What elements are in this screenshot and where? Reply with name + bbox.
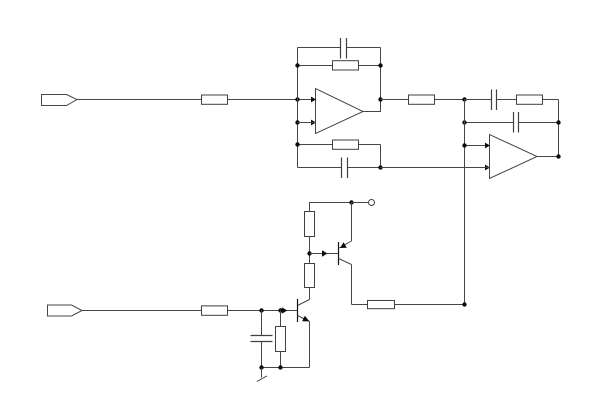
op-amp U1 xyxy=(316,89,364,134)
Q2 emitter vertical wire xyxy=(309,322,311,368)
junction R7 right xyxy=(462,302,466,306)
resistor R9 xyxy=(202,306,228,315)
resistor R5 xyxy=(517,95,543,104)
junction R3 left xyxy=(295,142,299,146)
Q1 emitter diagonal xyxy=(339,241,351,248)
node B vertical wire xyxy=(464,100,466,305)
op-amp U2 xyxy=(490,135,538,179)
resistor R8 xyxy=(305,264,315,288)
capacitor C1 left plate xyxy=(340,38,342,59)
wire output to R4 xyxy=(381,99,409,101)
wire node B to C3 xyxy=(465,99,492,101)
capacitor C4 left plate xyxy=(513,112,515,133)
junction U2 upper input xyxy=(462,143,466,147)
Q1 emitter arrow xyxy=(340,242,347,248)
capacitor C4 right plate xyxy=(518,112,520,133)
capacitor C5 bottom lead xyxy=(261,342,263,368)
wire node to U1 lower input xyxy=(298,122,316,124)
junction U2 output xyxy=(556,154,560,158)
wire node B to U2 input xyxy=(465,145,490,147)
junction emitter node xyxy=(349,200,353,204)
wire node C to Q1 base xyxy=(310,253,339,255)
wire U2 output xyxy=(537,156,559,158)
ground slash xyxy=(257,376,267,382)
wire to terminal xyxy=(352,202,369,204)
junction U1 lower input xyxy=(295,120,299,124)
wire P2 to R9 xyxy=(82,310,202,312)
wire R6 to R8 xyxy=(309,237,311,264)
top loop wire right of C1 xyxy=(347,47,381,49)
Q2 collector diagonal xyxy=(298,300,310,306)
Q1 collector vertical wire xyxy=(351,265,353,305)
resistor R6 xyxy=(305,212,315,237)
U2 input arrow top xyxy=(485,143,490,149)
junction R2 right xyxy=(378,63,382,67)
right feedback vertical wire xyxy=(558,100,560,157)
wire C3 to R5 xyxy=(497,99,517,101)
Q2 base arrow xyxy=(282,307,288,314)
resistor R10 top lead xyxy=(280,311,282,327)
wire R3 right xyxy=(359,144,381,146)
ground lead xyxy=(261,368,263,378)
Q2 emitter diagonal xyxy=(298,316,310,322)
capacitor C2 left plate xyxy=(341,158,343,179)
bottom loop wire right of C2 xyxy=(348,167,381,169)
wire to R2 left xyxy=(298,65,333,67)
wire R6 top to emitter node xyxy=(310,203,352,212)
wire R9 to Q2 base xyxy=(228,310,298,312)
wire bottom loop to U2 lower input xyxy=(381,167,490,169)
Q2 emitter arrow xyxy=(302,316,309,322)
transistor Q2 base bar xyxy=(297,299,299,322)
left feedback vertical wire xyxy=(297,48,299,168)
junction C4 left xyxy=(462,120,466,124)
resistor R1 xyxy=(202,95,228,104)
junction U1 output node xyxy=(378,97,382,101)
resistor R10 bottom lead xyxy=(280,352,282,368)
Q1 base arrow xyxy=(322,250,327,256)
junction bottom loop xyxy=(378,165,382,169)
wire P1 to R1 xyxy=(77,99,202,101)
wire to R3 left xyxy=(298,144,333,146)
wire R8 to Q2 collector xyxy=(309,288,311,300)
capacitor C5 top lead xyxy=(261,311,263,336)
Q1 collector diagonal xyxy=(339,259,352,265)
wire C4 to right vertical xyxy=(519,122,559,124)
top loop right vertical wire xyxy=(380,48,382,100)
terminal circle xyxy=(369,200,375,206)
bottom loop wire left of C2 xyxy=(298,167,342,169)
capacitor C1 right plate xyxy=(346,38,348,59)
junction C4 right xyxy=(556,120,560,124)
junction rail right xyxy=(278,365,282,369)
resistor R4 xyxy=(409,95,435,104)
U2 input arrow bottom xyxy=(485,165,490,171)
U1 input arrow top xyxy=(311,97,316,103)
capacitor C2 right plate xyxy=(347,158,349,179)
wire Q1 collector to R7 xyxy=(352,304,368,306)
resistor R10 xyxy=(276,327,286,352)
wire R5 to right vertical xyxy=(543,99,559,101)
bottom loop right vertical wire xyxy=(380,145,382,168)
junction node B xyxy=(462,97,466,101)
input port P2 xyxy=(48,305,83,316)
junction R10 top xyxy=(278,308,282,312)
wire R2 right xyxy=(359,65,381,67)
junction rail left xyxy=(259,365,263,369)
wire U1 output xyxy=(363,100,381,112)
capacitor C3 right plate xyxy=(496,90,498,111)
transistor Q1 base bar xyxy=(338,242,340,265)
junction R2 left xyxy=(295,63,299,67)
U1 input arrow bottom xyxy=(311,120,316,126)
top loop wire left of C1 xyxy=(298,47,341,49)
capacitor C3 left plate xyxy=(491,90,493,111)
junction C5 top xyxy=(259,308,263,312)
capacitor C5 top plate xyxy=(251,335,273,337)
resistor R2 xyxy=(333,61,359,70)
input port P1 xyxy=(42,95,78,106)
resistor R7 xyxy=(368,301,395,309)
Q1 emitter vertical wire xyxy=(351,203,353,242)
wire node B to C4 xyxy=(465,122,514,124)
resistor R3 xyxy=(333,140,359,149)
wire R4 to node B xyxy=(435,99,465,101)
wire R7 to node B vertical xyxy=(395,304,465,306)
junction node C xyxy=(307,251,311,255)
bottom rail wire xyxy=(262,367,310,369)
wire R1 to U1 input xyxy=(228,99,316,101)
junction node A xyxy=(295,97,299,101)
capacitor C5 bottom plate xyxy=(251,341,273,343)
